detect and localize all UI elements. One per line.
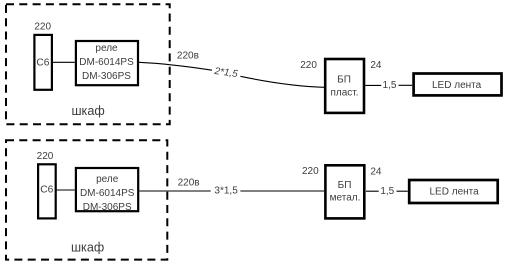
label 1,5 (output cable 2) (380, 186, 394, 197)
svg-text:LED лента: LED лента (430, 187, 480, 198)
LED strip 1 (LED лента) (414, 74, 502, 96)
svg-text:шкаф: шкаф (71, 104, 104, 118)
svg-text:220в: 220в (178, 178, 200, 189)
wire relay to PSU, right part (cabinet 1 feed) (240, 76, 324, 87)
svg-text:220: 220 (34, 21, 51, 32)
label шкаф (cabinet 2) (71, 241, 104, 255)
svg-text:БП: БП (338, 180, 352, 191)
svg-text:C6: C6 (40, 185, 53, 196)
svg-text:LED лента: LED лента (432, 80, 482, 91)
LED strip 2 (LED лента) (409, 180, 498, 203)
svg-text:24: 24 (370, 167, 382, 178)
cabinet enclosure 1 (dashed) (6, 4, 170, 124)
svg-text:реле: реле (95, 43, 118, 54)
label 24 (PSU 2 output) (370, 167, 382, 178)
svg-text:реле: реле (96, 174, 119, 185)
power supply БП метал. (metal PSU) (325, 165, 364, 218)
label 220в (wire 1) (177, 50, 199, 61)
svg-text:DM-306PS: DM-306PS (83, 202, 132, 213)
wire C6 to relay (cabinet 1) (53, 61, 75, 63)
relay DM-6014PS / DM-306PS (cabinet 2) (76, 168, 138, 213)
cabinet enclosure 2 (dashed) (6, 140, 167, 259)
wire relay to PSU, left part (cabinet 2 feed) (139, 190, 210, 192)
label 220 (cabinet 2 input) (37, 151, 54, 162)
svg-text:3*1,5: 3*1,5 (214, 186, 238, 197)
wire PSU2 to LED, left stub (366, 190, 379, 192)
wire PSU2 to LED, right stub (397, 190, 408, 192)
svg-text:C6: C6 (36, 57, 49, 68)
svg-text:метал.: метал. (330, 193, 361, 204)
label 220в (wire 2) (178, 178, 200, 189)
svg-text:DM-6014PS: DM-6014PS (80, 188, 135, 199)
svg-text:1,5: 1,5 (380, 186, 394, 197)
svg-text:пласт.: пласт. (330, 87, 358, 98)
label 1,5 (output cable 1) (383, 80, 397, 91)
breaker C6 (cabinet 2) (38, 164, 56, 218)
power supply БП пласт. (plastic PSU) (325, 59, 364, 113)
svg-text:220: 220 (300, 60, 317, 71)
breaker C6 (cabinet 1) (34, 35, 52, 90)
svg-text:1,5: 1,5 (383, 80, 397, 91)
label 220 (PSU 2 input) (302, 166, 319, 177)
label шкаф (cabinet 1) (71, 104, 104, 118)
label 24 (PSU 1 output) (370, 60, 382, 71)
label 220 (cabinet 1 input) (34, 21, 51, 32)
wire PSU1 to LED, left stub (365, 84, 381, 86)
label 2*1,5 (cable type, wire 1) (213, 66, 239, 80)
wire PSU1 to LED, right stub (399, 84, 413, 86)
svg-text:24: 24 (370, 60, 382, 71)
svg-text:шкаф: шкаф (71, 241, 104, 255)
wire C6 to relay (cabinet 2) (57, 189, 75, 191)
svg-text:220: 220 (302, 166, 319, 177)
svg-text:220в: 220в (177, 50, 199, 61)
svg-text:БП: БП (337, 74, 351, 85)
svg-text:DM-306PS: DM-306PS (82, 71, 131, 82)
relay DM-6014PS / DM-306PS (cabinet 1) (76, 41, 138, 85)
label 220 (PSU 1 input) (300, 60, 317, 71)
label 3*1,5 (cable type, wire 2) (214, 186, 238, 197)
wire relay to PSU, right part (cabinet 2 feed) (240, 190, 324, 192)
svg-text:220: 220 (37, 151, 54, 162)
svg-text:2*1,5: 2*1,5 (213, 66, 239, 80)
wire relay to PSU, left part (cabinet 1 feed) (139, 62, 212, 70)
svg-text:DM-6014PS: DM-6014PS (79, 57, 134, 68)
